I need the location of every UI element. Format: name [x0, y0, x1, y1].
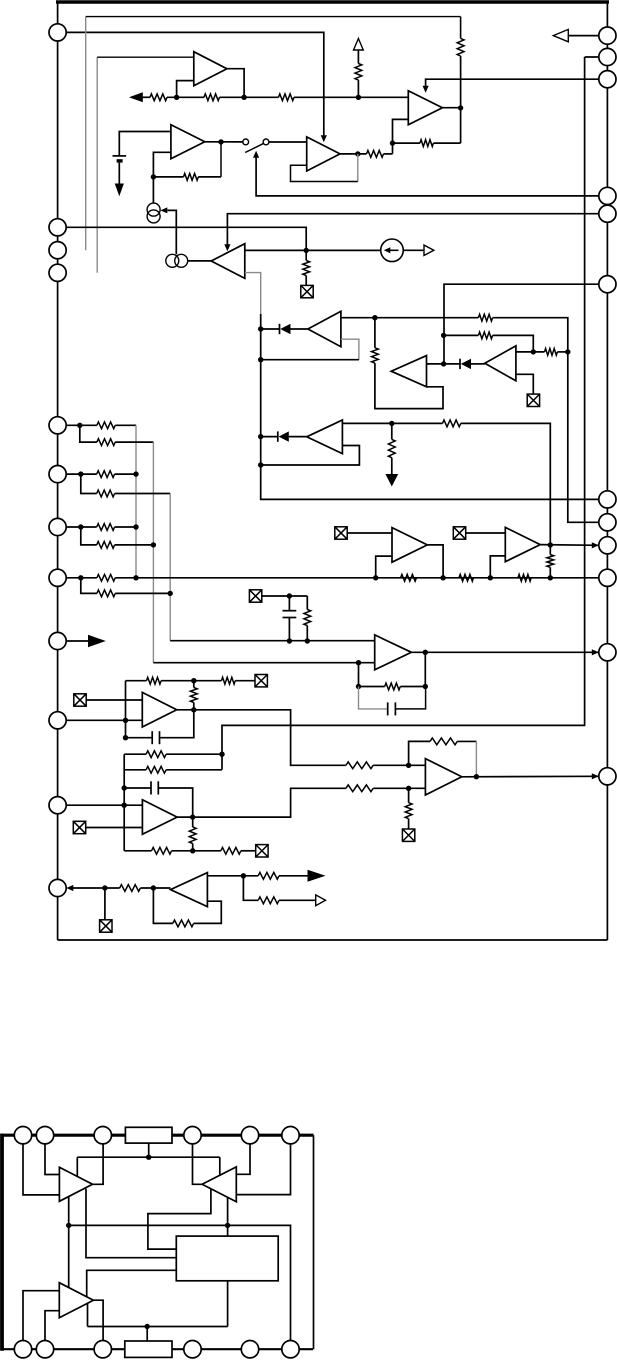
node U6 out — [372, 315, 377, 320]
wire to TP7 — [241, 850, 256, 852]
node row 1225 b — [225, 1223, 230, 1228]
node fb left — [356, 684, 361, 689]
wire pin L10 row to U12 — [58, 804, 143, 806]
wire row to U10 inverting input — [153, 662, 374, 664]
wire — [115, 473, 136, 475]
open arrow right (U5 path) — [424, 245, 434, 255]
wire pad T1 to amp A lower input — [23, 1144, 59, 1195]
node U15 inv — [373, 575, 378, 580]
resistor R41 (vertical) — [549, 545, 551, 555]
pin R9 — [599, 537, 616, 554]
resistor R17 — [97, 439, 115, 446]
wire U14 fb loop — [153, 888, 172, 923]
pad B3 — [94, 1341, 111, 1358]
arrow into pin R11 — [592, 649, 599, 655]
wire U4 feedback drop (gray) — [357, 154, 359, 182]
node U14 in — [151, 885, 156, 890]
node col1-L6 — [133, 524, 138, 529]
wire pin L7 row A (long row to right pin) — [58, 577, 97, 579]
arrow into U5 top — [224, 244, 230, 251]
test point TP2 — [527, 394, 539, 406]
pad B2 — [36, 1341, 53, 1358]
wire to open arrow — [279, 899, 316, 901]
wire — [172, 850, 221, 852]
resistor box RB2 — [125, 1341, 172, 1357]
wire R12 to U7 loop — [375, 363, 443, 409]
node U12 out — [190, 814, 195, 819]
resistor R8 — [184, 174, 199, 181]
node row97-b — [241, 95, 246, 100]
resistor R32 — [152, 847, 172, 854]
wire pad B2 to A3 lower input — [45, 1311, 59, 1341]
arrow into pin L11 — [66, 885, 73, 891]
diode D2 — [444, 363, 460, 365]
wire to U13 — [373, 787, 425, 789]
wire pin L6 row A — [58, 526, 97, 528]
wire resistor row 2 — [444, 334, 479, 336]
wire U11 output long row — [177, 710, 346, 766]
wire column 1 (gray) — [135, 425, 137, 578]
wire U3 output — [442, 107, 460, 109]
wire U5 lower output stub (gray) — [245, 273, 261, 314]
wire TP6 to U12 input — [86, 827, 143, 829]
pad T5 — [241, 1127, 258, 1144]
wire column 3 (gray) — [169, 494, 171, 641]
wire U16 output row to pin — [540, 544, 598, 547]
wire A1 tap 2 to box — [86, 1189, 176, 1258]
pin R12 — [599, 768, 616, 785]
op-amp U13 — [425, 759, 461, 795]
battery B1 negative plate — [117, 159, 123, 162]
resistor R12 (vertical) from U6 out node — [374, 318, 376, 348]
wire bias tap into amp B — [219, 1157, 221, 1175]
wire TP9 to U15 — [347, 532, 392, 534]
test point TP4 — [74, 694, 86, 706]
wire supply stem — [357, 50, 359, 64]
resistor R5 (vertical, top right) — [457, 38, 464, 56]
arrow into I1 — [160, 207, 167, 213]
supply arrow (open, up) — [354, 39, 364, 51]
ground arrow — [385, 474, 398, 487]
node U9 fb — [258, 462, 263, 467]
pin L3 — [49, 264, 66, 281]
resistor R23 — [97, 590, 115, 597]
wire — [198, 176, 221, 178]
wire pin L5 row B — [81, 474, 97, 493]
node diode row 3 — [258, 434, 263, 439]
wire U3 out down to feedback row — [460, 108, 462, 143]
meter M1 (circle with arrow) — [381, 239, 404, 262]
resistor R26 — [146, 751, 166, 758]
arrow output row left (large) — [129, 92, 143, 102]
wire box bottom to bottom bias row — [227, 1281, 229, 1327]
node bus-R11 — [565, 349, 570, 354]
pin R2 — [599, 48, 616, 65]
wire R5 bottom to U3 out node — [460, 56, 462, 108]
wire fb riser — [125, 681, 127, 721]
wire U2 fb node to current source I1 — [152, 177, 154, 203]
node col2-L6 — [151, 542, 156, 547]
node U3 out — [458, 105, 463, 110]
wire RB1 to bias row — [148, 1143, 150, 1157]
wire to drop at 550 — [461, 423, 551, 545]
pin R6 — [599, 276, 616, 293]
wire to TP11 — [104, 888, 106, 920]
resistor R31 (vertical) — [192, 817, 194, 827]
test point TP8 — [402, 829, 414, 841]
wire to solid arrow — [279, 875, 308, 877]
op-amp A2 (pointing left) — [202, 1167, 236, 1202]
resistor R36 — [430, 738, 457, 745]
resistor R34 — [346, 762, 373, 769]
resistor R1 — [150, 94, 167, 101]
arrow switch control — [253, 151, 259, 158]
open output arrow (right) — [316, 895, 326, 906]
wire U10 output row to pin — [411, 651, 598, 653]
resistor R25 — [385, 683, 401, 690]
arrow into U4 top — [321, 135, 327, 142]
wire U12 row B — [124, 769, 146, 771]
resistor box RB1 — [125, 1127, 172, 1143]
op-amp U10 — [375, 635, 412, 670]
wire pin L11 row — [73, 887, 120, 889]
node C1 bottom — [287, 638, 292, 643]
wire A1 output to pad T3 — [93, 1144, 104, 1184]
wire pad B1 to A3 upper input — [23, 1291, 59, 1341]
node TP11 tap — [102, 885, 107, 890]
test point TP10 — [453, 527, 465, 539]
wire pin L5 row A — [58, 473, 97, 475]
pin L10 — [49, 797, 66, 814]
node col3-L7 — [168, 591, 173, 596]
node row2 — [441, 333, 446, 338]
resistor R29 — [222, 677, 236, 684]
wire bias tap into amp A — [76, 1157, 78, 1177]
test point TP1 — [301, 285, 313, 297]
wire pin L8 stub — [66, 640, 88, 642]
node fb T — [191, 678, 196, 683]
node U16 inv — [488, 575, 493, 580]
wire U1 inverting input riser — [177, 81, 194, 98]
wire U9 feedback — [261, 446, 360, 466]
wire — [166, 753, 222, 755]
pin L-top — [49, 24, 66, 41]
wire to diode D3 — [261, 436, 278, 438]
node U4 out — [355, 151, 360, 156]
resistor R43 — [173, 920, 194, 927]
arrow into pin R9 — [592, 542, 599, 548]
test point TP9 — [335, 527, 347, 539]
wire U4 output row — [340, 153, 367, 155]
wire to U8 output node — [493, 335, 534, 352]
op-amp U4 — [307, 137, 340, 171]
resistor R45 — [258, 897, 279, 904]
wire U8 lower to test point — [516, 374, 533, 394]
pin R1 — [599, 27, 616, 44]
op-amp U6 (pointing left) — [308, 311, 341, 346]
node diode row 1 — [258, 326, 263, 331]
wire — [115, 592, 170, 594]
pin L4 — [49, 417, 66, 434]
resistor R3 — [279, 94, 295, 101]
node U13 minus — [406, 786, 411, 791]
wire to diode D1 — [261, 328, 280, 330]
op-amp A1 — [59, 1167, 92, 1201]
pad T6 — [282, 1127, 299, 1144]
arrow into pin R12 — [592, 773, 599, 779]
wire switch to U4 input — [269, 141, 307, 143]
resistor R18 — [97, 471, 115, 478]
wire to RB2 — [146, 1327, 148, 1342]
wire pad T5 to amp B upper input — [236, 1144, 250, 1174]
resistor R10 — [478, 314, 492, 321]
op-amp U7 (pointing left) — [391, 356, 426, 387]
resistor R21 — [97, 542, 115, 549]
resistor R44 — [258, 872, 279, 879]
wire fb to U14 edge — [194, 901, 222, 923]
open arrow left at pin R1 — [553, 29, 568, 41]
wire gray line 2 vertical (pin IN3) — [96, 57, 98, 273]
wire pin L9 row to U11 — [58, 719, 143, 721]
wire U12 output long row — [177, 788, 346, 817]
resistor R35 — [346, 785, 373, 792]
node col1-L5 — [133, 471, 138, 476]
control box CB1 — [176, 1236, 278, 1281]
node row 1225 — [66, 1223, 71, 1228]
pin L7 — [49, 569, 66, 586]
resistor R37 (vertical) — [408, 788, 410, 802]
wire U11 fb top row — [126, 680, 147, 682]
resistor R16 — [97, 422, 115, 429]
wire meter to open arrow — [403, 249, 424, 251]
wire U2 noninverting input from battery — [119, 132, 171, 156]
wire — [384, 153, 393, 155]
node U13 out — [474, 774, 479, 779]
diode D1 — [279, 324, 281, 334]
wire U6 feedback row — [261, 359, 359, 361]
wire to bus — [557, 351, 567, 353]
wire row 725 (bus corner to x222 drop) — [222, 57, 585, 770]
pad B6 — [282, 1341, 299, 1358]
resistor R13 — [478, 332, 492, 339]
wire bottom bias row — [88, 1326, 228, 1328]
node bottom bias — [145, 1324, 150, 1329]
wire U6 output row to right bus — [341, 317, 479, 319]
wire long vertical to pin R7 — [261, 314, 608, 499]
wire I1 control down to I2 — [167, 210, 176, 254]
resistor R19 — [97, 490, 115, 497]
resistor R42 — [120, 885, 141, 892]
capacitor C1 — [288, 596, 290, 611]
wire to U13 — [373, 764, 425, 766]
wire U15 inverting riser — [376, 556, 392, 578]
resistor R33 — [221, 847, 241, 854]
wire — [161, 680, 221, 682]
capacitor C4 row — [124, 787, 151, 789]
pin R11 — [599, 644, 616, 661]
wire U2 output to switch — [205, 141, 243, 143]
op-amp U12 — [142, 800, 177, 835]
wire U6 feedback notch (gray) — [341, 339, 359, 360]
wire gray feedback line 1 vertical (to pin IN2) — [85, 17, 87, 251]
pin R8 — [599, 514, 616, 531]
pad B5 — [241, 1341, 258, 1358]
pad T4 — [184, 1127, 201, 1144]
test point TP6 — [73, 821, 85, 833]
wire switch control from pin R4 row — [256, 155, 607, 196]
wire U8 upper output — [516, 351, 545, 353]
resistor R27 — [146, 766, 166, 773]
resistor R6 — [420, 140, 433, 147]
resistor R14 — [443, 420, 461, 427]
node U10 inv — [356, 660, 361, 665]
pin L6 — [49, 518, 66, 535]
wire pad T2 to amp A upper input — [45, 1144, 59, 1175]
node R24 bottom — [305, 638, 310, 643]
IC boundary right border — [606, 2, 608, 940]
resistor R38 — [401, 574, 417, 581]
wire A2 tap 2 to control box top — [227, 1197, 229, 1236]
node U2 out — [218, 139, 223, 144]
wire pin R6 row down — [444, 284, 607, 364]
wire U2 fb drop — [220, 142, 222, 177]
wire row 1225 — [69, 1225, 291, 1340]
wire — [115, 544, 154, 546]
bottom block bottom rail — [1, 1348, 314, 1350]
resistor R40 — [518, 574, 531, 581]
pad T2 — [36, 1127, 53, 1144]
wire U12 bottom fb row — [124, 850, 151, 852]
wire U13 output row to pin — [462, 775, 599, 778]
node L6 — [78, 524, 83, 529]
wire pad T4 to amp B — [193, 1144, 203, 1184]
node U5 out — [304, 248, 309, 253]
bottom block right border — [313, 1135, 315, 1349]
wire to column 2 — [115, 441, 153, 443]
node U2 fb — [151, 174, 156, 179]
op-amp U9 (pointing left) — [307, 420, 343, 454]
pin L11 — [49, 879, 66, 896]
current source I1 (stacked circles) — [147, 203, 160, 216]
wire row97 left segment — [136, 96, 150, 98]
wire to U10 inverting input — [358, 663, 360, 687]
wire TP3 to RC node — [262, 595, 308, 597]
wire to column 3 — [115, 493, 171, 495]
wire — [115, 526, 136, 528]
wire I2 to U5 input — [188, 260, 212, 262]
node diode row 2 — [441, 361, 446, 366]
wire D3 to U9 — [289, 436, 307, 438]
pad B4 — [184, 1341, 201, 1358]
wire pin L7 row B — [81, 578, 97, 594]
wire — [167, 96, 204, 98]
node U16 out — [548, 542, 553, 547]
wire U9 output row — [342, 422, 442, 424]
wire line 2 horizontal to U1 input — [97, 56, 194, 58]
pad T3 — [94, 1127, 111, 1144]
wire A3 output to pad B3 — [93, 1300, 103, 1340]
wire U15 output drop — [427, 545, 443, 578]
wire pin1 row to vertical drop into U4 — [58, 32, 324, 138]
wire column 2 (gray) — [152, 442, 154, 663]
wire U14 output row — [207, 875, 258, 877]
op-amp A3 — [59, 1283, 93, 1318]
node U13 plus — [406, 763, 411, 768]
wire feedback line 1 down to R5 — [460, 17, 462, 39]
op-amp U16 — [505, 527, 540, 561]
resistor R30 (vertical) — [190, 688, 197, 703]
node U11 out — [191, 707, 196, 712]
wire to column 1 — [115, 424, 136, 426]
wire long row 578 — [115, 577, 607, 579]
IC boundary bottom border — [58, 939, 608, 941]
bottom block top rail (thick) — [1, 1134, 314, 1137]
solid output arrow L8 — [88, 635, 106, 647]
wire U1 output to row — [227, 69, 244, 98]
current source I2 (side circles) — [166, 254, 179, 267]
battery B1 positive plate — [113, 155, 127, 157]
test point TP3 — [249, 590, 261, 602]
switch S1 lever — [245, 144, 263, 153]
wire U10 fb drop — [424, 652, 426, 686]
wire — [357, 80, 359, 97]
node bias — [146, 1155, 151, 1160]
wire U5 output row — [245, 249, 381, 251]
wire fb row left — [153, 176, 183, 178]
wire A1 tap 1 long vertical to A3 — [68, 1196, 70, 1287]
wire bias row — [77, 1156, 220, 1158]
node fb right — [423, 684, 428, 689]
op-amp U14 (pointing left) — [171, 873, 208, 907]
resistor R24 (vertical) — [306, 596, 308, 610]
capacitor C3 row — [125, 720, 127, 737]
switch S1 contact a — [243, 139, 249, 145]
resistor R39 — [459, 574, 474, 581]
wire A2 tap to row 1213 — [148, 1189, 211, 1249]
node U12 noninv — [122, 803, 127, 808]
op-amp U3 — [408, 91, 442, 125]
wire U7 upper to diode node — [427, 363, 444, 365]
wire U3 inverting input riser — [393, 119, 409, 153]
pin R4 — [599, 187, 616, 204]
wire pin L1 row — [58, 227, 307, 250]
wire row to U10 noninverting input — [170, 640, 375, 642]
wire to TP5 — [235, 680, 255, 682]
wire U13 fb loop — [409, 741, 430, 765]
resistor R15 (vertical to ground) — [391, 423, 393, 439]
IC boundary left border — [57, 2, 59, 940]
node U6 fb — [258, 357, 263, 362]
node L7 — [78, 575, 83, 580]
resistor R9 (vertical) below U5 out node — [305, 250, 307, 260]
arrow into U3 top — [423, 86, 429, 93]
wire pad T6 to amp B lower input — [236, 1144, 290, 1195]
wire — [393, 142, 421, 144]
node U15 out — [440, 575, 445, 580]
op-amp U1 — [194, 52, 227, 86]
switch S1 contact b — [263, 139, 269, 145]
node U9 out — [389, 421, 394, 426]
wire — [166, 769, 222, 771]
op-amp U11 — [142, 692, 176, 727]
node U12 fb bottom — [190, 848, 195, 853]
wire U12 fb riser — [123, 754, 125, 851]
pin R10 — [599, 569, 616, 586]
wire pin R3 row to arrow into U3 — [426, 79, 608, 89]
node RC — [287, 593, 292, 598]
wire U16 inverting riser — [490, 556, 505, 578]
wire pin R5 row to arrow into U5 — [227, 214, 607, 248]
